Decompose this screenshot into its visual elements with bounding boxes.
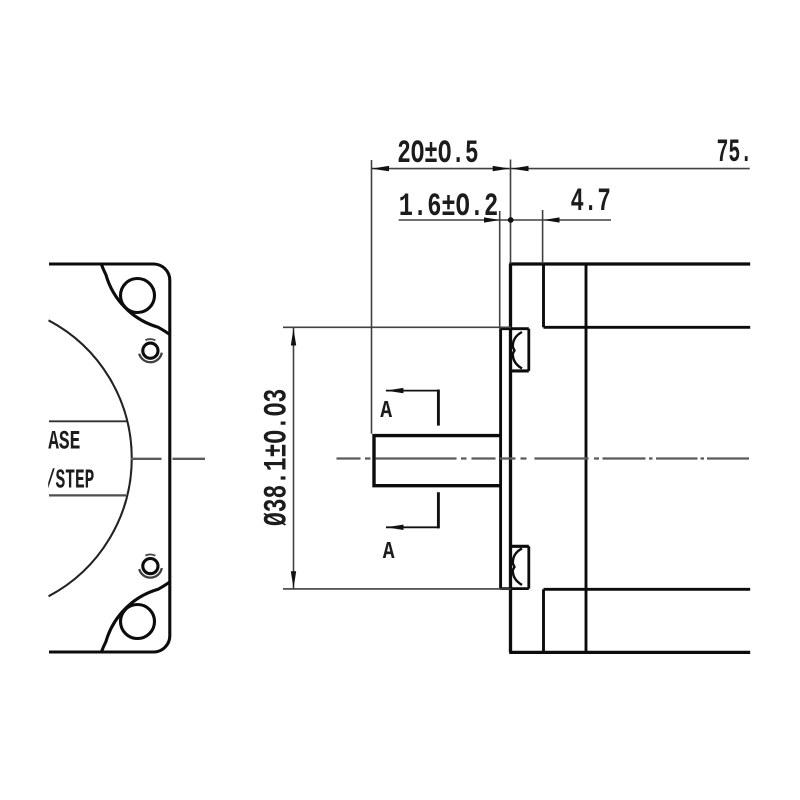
svg-text:2O±O.5: 2O±O.5 [397, 137, 478, 173]
screw boss section bottom: thread curve [513, 548, 522, 585]
screw boss section bottom: top bar [511, 545, 529, 548]
mounting hole bottom [121, 605, 155, 639]
section line A-A bottom [386, 492, 438, 528]
screw arc bottom [139, 568, 162, 578]
section arrow bottom [386, 525, 404, 530]
arrow left of 20 dim [372, 166, 390, 171]
arrow top of Ø38.1 [291, 328, 296, 345]
dimension 1.6±0.2 / 4.7 line [399, 219, 611, 221]
ext line boss top [283, 326, 511, 328]
ext line boss face [499, 211, 501, 328]
svg-text:1.6±O.2: 1.6±O.2 [399, 190, 498, 225]
dimension extension lines [283, 160, 543, 589]
main face circle [49, 320, 132, 596]
flange corner radius top-right [154, 264, 170, 281]
screw hole top [143, 343, 158, 358]
front view (left, cropped) [46, 264, 205, 652]
dimension 20±0.5 line [372, 168, 750, 170]
corner-cut vertical bottom [542, 589, 545, 652]
svg-text:Ø38.1±O.O3: Ø38.1±O.O3 [260, 389, 296, 526]
front view centerline [131, 458, 205, 460]
pilot boss face [499, 328, 502, 588]
corner ear arc top [101, 264, 170, 334]
arrow left of 75 dim [511, 166, 529, 171]
arrow right of 20 dim [493, 166, 511, 171]
screw boss section bottom: right edge [527, 546, 530, 588]
svg-text:4.7: 4.7 [571, 185, 611, 221]
flange top edge [49, 262, 154, 265]
arrow bottom of Ø38.1 [291, 571, 296, 588]
side view [374, 264, 750, 652]
flange corner radius bottom-right [154, 636, 170, 653]
plate front face [509, 264, 512, 652]
ext line boss bottom [283, 588, 511, 590]
arrow for 1.6 dim [484, 217, 500, 222]
corner-cut vertical top [542, 264, 545, 327]
label line upper [49, 420, 127, 422]
screw boss section top: bottom bar [511, 369, 529, 372]
svg-text:75.: 75. [717, 135, 753, 171]
end-bell seam [585, 264, 588, 652]
shaft outline [374, 436, 501, 486]
svg-text:A: A [383, 539, 396, 566]
body top edge [509, 262, 750, 265]
side view centerline [337, 457, 750, 459]
mounting hole top [121, 279, 155, 313]
flange bottom edge [49, 650, 154, 653]
svg-text:A: A [380, 397, 393, 424]
ext line plate face [510, 160, 512, 264]
dimension Ø38.1 line [293, 328, 295, 589]
svg-text:/STEP: /STEP [46, 464, 95, 496]
junction dot [508, 217, 514, 223]
corner-cut line top [544, 326, 751, 329]
pilot boss top edge [501, 327, 529, 330]
body bottom edge [509, 651, 750, 654]
screw hole bottom [143, 559, 158, 574]
screw boss section top: right edge [527, 329, 530, 371]
corner-cut line bottom [544, 588, 751, 591]
ext line flange back [542, 210, 544, 264]
flange right edge [168, 281, 171, 636]
section line A-A top [386, 390, 439, 426]
screw arc top [139, 353, 162, 363]
ext line shaft tip [371, 160, 373, 434]
svg-text:ASE: ASE [48, 426, 80, 457]
pilot boss bottom edge [501, 587, 529, 590]
section arrow top [386, 388, 404, 393]
label line lower [49, 494, 126, 496]
corner ear arc bottom [101, 582, 170, 652]
arrow for 4.7 dim [543, 217, 559, 222]
screw boss section top: thread curve [513, 332, 522, 369]
